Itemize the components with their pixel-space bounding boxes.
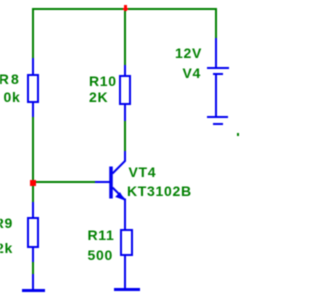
ground under R11	[114, 288, 140, 291]
value 2K	[89, 90, 108, 104]
label 12V	[175, 46, 202, 60]
transistor VT4	[0, 0, 239, 306]
stray green mark right edge	[237, 133, 239, 136]
label R11	[88, 228, 115, 242]
label R10	[89, 74, 117, 88]
wire base horizontal	[34, 181, 95, 183]
value 10k	[4, 90, 21, 104]
ground under R9	[32, 274, 34, 289]
label V4	[182, 66, 201, 80]
base lead	[95, 181, 110, 183]
wire R10 to collector	[124, 121, 126, 151]
wire left vertical (top rail to R8)	[32, 8, 34, 58]
battery V4	[215, 38, 217, 67]
resistor R9	[32, 202, 34, 217]
emitter lead	[113, 188, 126, 230]
base bar	[109, 167, 113, 199]
label R8	[0, 72, 21, 86]
value 500	[88, 248, 113, 262]
wire below R9	[32, 262, 34, 274]
resistor R8	[32, 58, 34, 74]
value 2k	[0, 241, 13, 255]
wire right vertical (top rail to V4)	[215, 8, 217, 38]
label R9	[0, 216, 13, 230]
collector lead	[113, 151, 126, 174]
label VT4	[129, 165, 157, 179]
resistor R10	[124, 65, 126, 75]
wire top horizontal rail	[32, 8, 217, 10]
wire middle vertical (top rail to R10)	[124, 8, 126, 65]
node junction top (red)	[124, 5, 127, 11]
node junction base (red)	[30, 180, 36, 186]
wire left vertical (R8 to R9 through base node)	[32, 117, 34, 202]
resistor R11	[120, 229, 133, 256]
label KT3102B	[127, 184, 192, 198]
emitter arrow	[115, 192, 125, 200]
